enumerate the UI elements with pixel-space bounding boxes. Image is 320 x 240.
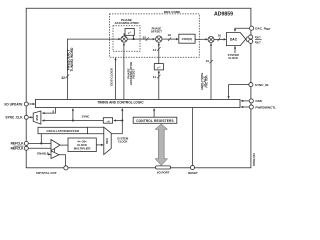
wire buffer to enable gate	[54, 149, 56, 152]
svg-text:MUX: MUX	[106, 138, 109, 144]
wire mux2 output	[111, 133, 122, 135]
FREQUENCY TUNING WORD label	[66, 47, 74, 72]
wire system clock into DAC	[234, 46, 236, 53]
wire SYNC_IN to timing logic	[228, 85, 249, 99]
svg-text:AD9859: AD9859	[214, 12, 233, 18]
wire multiplier to mux2	[96, 144, 103, 146]
pin SYNC_IN	[249, 83, 269, 87]
mux MUX1 (sync_clk)	[33, 111, 41, 124]
svg-text:÷4: ÷4	[106, 119, 110, 123]
svg-text:CONTROL REGISTERS: CONTROL REGISTERS	[136, 119, 174, 123]
pin OSK	[249, 99, 263, 103]
svg-text:FACTOR: FACTOR	[205, 75, 209, 88]
chip outer border	[26, 8, 251, 168]
block I/O PORT	[156, 166, 171, 175]
bus slash 32 on FTW wire	[61, 74, 69, 80]
SYSTEM CLOCK label	[117, 136, 129, 143]
wire REFCLK	[28, 142, 51, 144]
wire enable gate to crystal out	[59, 155, 66, 166]
wire I/O UPDATE to timing logic	[28, 103, 35, 105]
wire OSK to timing logic	[241, 100, 250, 102]
register Z^-1	[125, 28, 134, 35]
svg-text:DDS CLOCK: DDS CLOCK	[109, 67, 113, 86]
svg-text:14: 14	[153, 48, 157, 52]
bus slash 10 DAC input	[218, 34, 222, 42]
wire label box to mux2	[88, 133, 104, 135]
pin IOUT	[249, 35, 262, 40]
PHASE OFFSET label	[151, 27, 162, 34]
pin RESET	[188, 165, 198, 175]
wire system clock into divider	[113, 119, 123, 121]
svg-text:CLOCK: CLOCK	[228, 56, 238, 60]
svg-text:SYNC: SYNC	[82, 115, 90, 119]
pin PWRDWNCTL	[249, 105, 276, 109]
wire timing logic to mux1 upper input	[42, 108, 56, 115]
wire SYNC to mux1 lower input	[42, 115, 104, 122]
svg-text:10: 10	[206, 59, 210, 63]
bus slash 14 upper	[153, 47, 161, 52]
multiplier M1	[208, 37, 214, 43]
wire adder A2 to COS(X)	[162, 38, 179, 40]
block COS(X)	[179, 34, 195, 43]
wire SYNC up into timing logic	[72, 108, 74, 121]
svg-text:REFCLK: REFCLK	[11, 147, 25, 151]
block TIMING AND CONTROL LOGIC	[36, 99, 241, 107]
pin CRYSTAL OUT	[36, 166, 68, 175]
PHASE ACCUMULATOR RESET label	[126, 61, 135, 85]
wire DAC to IOUT	[246, 36, 249, 39]
pin I/O UPDATE	[4, 102, 28, 106]
wire buffer to clock multiplier	[60, 144, 68, 146]
bus slash 10 amplitude	[206, 59, 213, 63]
register Z^-1 phase offset	[154, 64, 163, 70]
phase accumulator dashed box	[113, 26, 140, 52]
bus slash 14 lower	[153, 75, 161, 79]
adder A1 (phase accumulator)	[121, 36, 127, 42]
wire REFCLK-bar	[28, 147, 51, 149]
wire system clock riser into timing logic	[121, 108, 123, 134]
pin REFCLK	[11, 141, 29, 145]
wire refclk bypass to mux2	[88, 126, 104, 128]
wire DDS clock	[114, 57, 116, 99]
mux MUX2 (system clock)	[104, 127, 111, 154]
svg-text:OSK: OSK	[255, 99, 262, 103]
svg-text:CLOCK: CLOCK	[118, 140, 128, 144]
pin IOUT-bar	[249, 39, 262, 44]
svg-text:14: 14	[153, 75, 157, 79]
wire refclk riser	[40, 134, 42, 145]
wire control registers to timing logic	[153, 108, 155, 117]
SYSTEM CLOCK label at DAC	[228, 53, 240, 60]
svg-text:MULTIPLIER: MULTIPLIER	[74, 146, 91, 150]
wire PWRDWNCTL to timing logic	[241, 106, 250, 108]
svg-text:02562-001: 02562-001	[252, 153, 256, 166]
wire Z^-1 output to adder	[123, 34, 125, 37]
block CONTROL REGISTERS	[133, 117, 177, 123]
wire phase offset upper feed	[158, 43, 160, 64]
svg-text:RESET: RESET	[132, 68, 136, 78]
svg-text:OFFSET: OFFSET	[151, 30, 162, 34]
svg-text:DDS CORE: DDS CORE	[164, 10, 180, 14]
svg-text:DAC: DAC	[230, 37, 238, 41]
svg-text:ENABLE: ENABLE	[37, 152, 49, 156]
wire amplitude scale factor	[210, 43, 212, 100]
wire RESET to timing logic	[192, 108, 194, 166]
svg-text:OSCILLATOR/BUFFER: OSCILLATOR/BUFFER	[46, 129, 80, 133]
svg-text:32: 32	[143, 35, 147, 39]
AMPLITUDE SCALE FACTOR label	[200, 73, 209, 91]
svg-text:SYNC_IN: SYNC_IN	[255, 83, 269, 87]
wire phase offset lower feed	[158, 70, 160, 99]
wire DAC_RSET to DAC	[234, 28, 250, 32]
svg-text:COS(X): COS(X)	[182, 37, 193, 41]
wire frequency tuning word	[67, 38, 121, 99]
enable gate buffer	[51, 151, 59, 159]
svg-text:TIMING AND CONTROL LOGIC: TIMING AND CONTROL LOGIC	[97, 101, 144, 105]
pin REFCLK-bar	[11, 146, 29, 151]
oscillator buffer amp	[51, 140, 60, 151]
svg-text:RESET: RESET	[188, 171, 198, 175]
wire mux to SYNC_CLK	[29, 116, 34, 118]
block divide by 4	[103, 118, 112, 124]
svg-text:10: 10	[218, 34, 222, 38]
pin DAC_RSET	[250, 26, 271, 31]
wire DAC to IOUT-bar	[246, 39, 249, 42]
DDS CORE dashed box	[110, 14, 200, 57]
svg-text:SYNC_CLK: SYNC_CLK	[5, 116, 23, 120]
ENABLE label and arrow	[37, 152, 51, 156]
wire adder output to Z^-1 input	[133, 35, 135, 40]
block 4x-20x clock multiplier	[68, 138, 96, 152]
svg-text:PWRDWNCTL: PWRDWNCTL	[255, 105, 276, 109]
svg-text:CRYSTAL OUT: CRYSTAL OUT	[36, 171, 57, 175]
bus slash 32 after accumulator	[143, 35, 149, 41]
pin SYNC_CLK	[5, 115, 28, 119]
svg-text:I/O PORT: I/O PORT	[157, 170, 170, 174]
data bus double arrow	[155, 124, 167, 165]
svg-text:32: 32	[61, 76, 65, 80]
wire phase accumulator reset	[123, 43, 125, 100]
OSCILLATOR/BUFFER label box	[38, 127, 88, 133]
svg-text:MUX: MUX	[36, 114, 39, 120]
svg-text:I/O UPDATE: I/O UPDATE	[4, 102, 22, 106]
svg-text:TUNING WORD: TUNING WORD	[70, 47, 74, 72]
bus slash 19	[168, 33, 172, 41]
svg-text:REFCLK: REFCLK	[11, 142, 25, 146]
wire adder A1 to adder A2	[127, 38, 155, 40]
wire COS(X) to multiplier	[195, 38, 208, 40]
adder A2 (phase offset)	[156, 36, 162, 42]
DAC U1	[226, 33, 245, 46]
svg-text:19: 19	[168, 33, 172, 37]
wire multiplier to DAC	[214, 38, 226, 40]
svg-text:ACCUMULATOR: ACCUMULATOR	[114, 21, 139, 25]
